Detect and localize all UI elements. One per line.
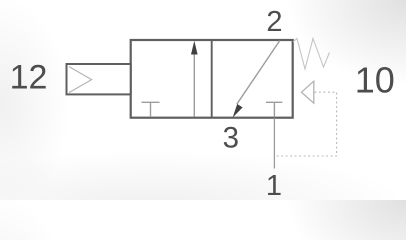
port 1 line [273, 118, 275, 169]
left cell blocked port T [142, 102, 160, 117]
left cell flow arrowhead [191, 41, 198, 55]
right cell blocked port T [266, 102, 282, 117]
pilot chevron inside box [69, 67, 92, 93]
valve body outer rectangle [131, 40, 293, 118]
svg-text:10: 10 [355, 59, 395, 100]
pilot actuator box (12 side) [67, 64, 131, 94]
left cell flow arrow shaft [193, 52, 195, 117]
return spring [293, 39, 330, 70]
svg-text:2: 2 [266, 6, 282, 38]
pilot triangle (10 side) [302, 81, 314, 103]
right cell diagonal shaft [237, 41, 280, 105]
divider between valve positions [211, 40, 213, 118]
right cell diagonal arrowhead [233, 104, 243, 118]
svg-text:12: 12 [10, 59, 48, 97]
svg-text:3: 3 [223, 121, 239, 154]
dashed pilot control line [275, 92, 337, 156]
svg-text:1: 1 [266, 170, 282, 200]
